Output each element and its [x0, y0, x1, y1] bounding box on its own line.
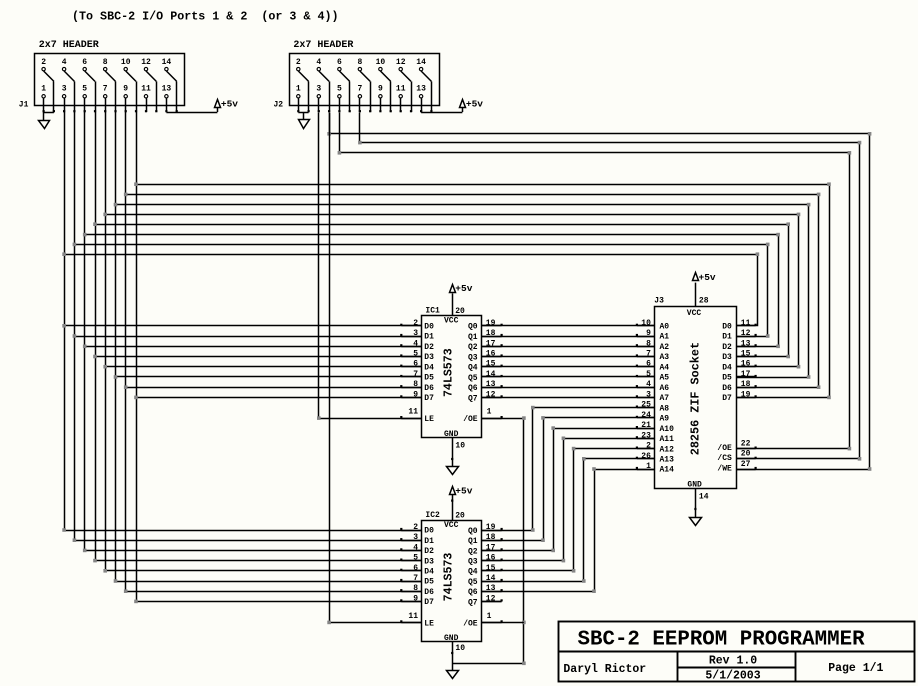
svg-text:3: 3 [316, 84, 321, 93]
IC2 Q0 stub tick [501, 528, 503, 530]
wire J2 pin 4 to IC2 LE [330, 113, 422, 623]
svg-text:J2: J2 [273, 101, 283, 110]
wire J1 pin 7 vertical drop (data bit 4) [105, 112, 107, 571]
svg-text:/OE: /OE [463, 619, 478, 628]
corner /OE chain at GND tie [522, 662, 526, 666]
IC1 input pin 6 D4 [401, 366, 421, 368]
IC1 D0 stub tick [400, 324, 402, 326]
svg-text:D3: D3 [722, 353, 732, 362]
IC2 output pin 14 Q5 [482, 581, 502, 583]
IC1 output pin 18 Q1 [482, 336, 502, 338]
ZIF A11 stub tick [636, 436, 638, 438]
corner IC2 Q2 bottom [551, 549, 555, 553]
ZIF pin 16 D4 [737, 366, 756, 368]
svg-text:4: 4 [413, 543, 418, 552]
svg-text:J3: J3 [654, 297, 664, 306]
svg-text:7: 7 [103, 84, 108, 93]
corner IC2 Q4 bottom [572, 569, 576, 573]
corner data bit 5 at right vertical [807, 203, 811, 207]
svg-text:22: 22 [741, 439, 751, 448]
ZIF A13 stub tick [636, 457, 638, 459]
IC1 output pin 13 Q6 [482, 387, 502, 389]
corner J2 pin 6 to ZIF /WE at ZIF pin [868, 467, 872, 471]
ZIF pin 5 A5 [637, 376, 655, 378]
wire IC2 Q6 to ZIF A14 [482, 470, 655, 592]
svg-text:D5: D5 [722, 374, 732, 383]
IC1 input pin 2 D0 [401, 325, 421, 327]
corner data bit 6 at ZIF D6 [817, 385, 821, 389]
IC2 Q2 stub tick [501, 548, 503, 550]
svg-text:Q1: Q1 [468, 333, 478, 342]
svg-text:10: 10 [455, 644, 465, 653]
junction data bit 5 at IC1 input [114, 375, 118, 379]
wire data bit 4 tap to IC2 D4 [105, 570, 421, 572]
IC2 D6 stub tick [400, 589, 402, 591]
svg-text:9: 9 [413, 594, 418, 603]
wire J2 pin 6 to ZIF /WE [330, 113, 870, 470]
wire IC1 Q4 to ZIF A4 [482, 366, 655, 368]
ZIF D5 stub tick [755, 375, 757, 377]
wire data bit 1 tap to IC2 D1 [74, 540, 421, 542]
corner J2 pin 7 to ZIF /CS start [358, 141, 362, 145]
IC1 input pin 9 D7 [401, 397, 421, 399]
svg-text:18: 18 [741, 380, 751, 389]
svg-text:2: 2 [646, 442, 651, 451]
socket J3 body 28256 ZIF Socket [655, 307, 737, 489]
svg-text:8: 8 [413, 380, 418, 389]
svg-text:5: 5 [413, 350, 418, 359]
wire data bit 5 tap to IC1 D5 [116, 376, 422, 378]
IC1 D3 stub tick [400, 354, 402, 356]
svg-text:21: 21 [641, 421, 651, 430]
IC2 pin 10 GND [452, 642, 454, 670]
ZIF A9 stub tick [636, 416, 638, 418]
wire J1 pin 6 vertical drop (data bit 3) [95, 112, 97, 561]
corner data bit 3 at right vertical [786, 222, 790, 226]
svg-text:A2: A2 [660, 343, 670, 352]
ZIF D0 stub tick [755, 324, 757, 326]
svg-text:Q7: Q7 [468, 394, 478, 403]
svg-text:16: 16 [486, 350, 496, 359]
wire data bit 7 (J1 pin 10) top bus to ZIF D7 [137, 185, 830, 398]
wire IC1 Q6 to ZIF A6 [482, 387, 655, 389]
svg-text:Daryl Rictor: Daryl Rictor [563, 663, 646, 676]
corner J2 pin 7 to ZIF /CS right top [858, 141, 862, 145]
corner data bit 2 at right vertical [776, 233, 780, 237]
wire J2 pins 13-14 to +5v [421, 112, 462, 114]
corner data bit 7 at right vertical [827, 182, 831, 186]
svg-text:20: 20 [455, 307, 465, 316]
ZIF D3 stub tick [755, 354, 757, 356]
ZIF pin 3 A7 [637, 397, 655, 399]
corner data bit 5 at IC2 input [114, 579, 118, 583]
wire J2 pin 5 to ZIF /OE [340, 113, 850, 449]
IC2 input pin 2 D0 [401, 530, 421, 532]
IC1 Q5 stub tick [501, 375, 503, 377]
svg-text:2x7 HEADER: 2x7 HEADER [293, 40, 353, 51]
IC2 Q6 stub tick [501, 589, 503, 591]
ZIF D6 stub tick [755, 385, 757, 387]
svg-text:7: 7 [413, 574, 418, 583]
ground at J1 pins 1-2 [44, 112, 54, 114]
svg-text:5: 5 [646, 370, 651, 379]
svg-text:1: 1 [41, 84, 46, 93]
ZIF A8 stub tick [636, 406, 638, 408]
svg-text:13: 13 [486, 380, 496, 389]
corner data bit 0 at right vertical [756, 252, 760, 256]
wire data bit 0 tap to IC2 D0 [64, 530, 421, 532]
svg-text:/WE: /WE [717, 464, 732, 473]
ZIF stub tick for J2 pin 6 to ZIF /WE [755, 467, 757, 469]
svg-text:A3: A3 [660, 353, 670, 362]
ZIF D4 stub tick [755, 365, 757, 367]
svg-text:17: 17 [486, 543, 496, 552]
svg-text:Q4: Q4 [468, 364, 478, 373]
corner data bit 2 at ZIF D2 [776, 345, 780, 349]
IC1 D2 stub tick [400, 344, 402, 346]
wire J1 pin 3 vertical drop (data bit 0) [64, 112, 66, 530]
ZIF A7 stub tick [636, 395, 638, 397]
latch IC1 body 74LS573 [422, 316, 482, 438]
ZIF D1 stub tick [755, 334, 757, 336]
wire J1 pin 10 vertical drop (data bit 7) [136, 112, 138, 601]
IC1 input pin 7 D5 [401, 376, 421, 378]
wire J2 pin 7 to ZIF /CS [360, 113, 860, 459]
svg-text:4: 4 [413, 339, 418, 348]
svg-text:+5v: +5v [466, 99, 483, 110]
wire IC1 Q2 to ZIF A2 [482, 346, 655, 348]
connector J1 body [35, 54, 185, 106]
svg-text:10: 10 [641, 319, 651, 328]
svg-text:5: 5 [82, 84, 87, 93]
ZIF D7 stub tick [755, 395, 757, 397]
ZIF A3 stub tick [636, 354, 638, 356]
corner J2 pin 3 at IC1 LE [317, 416, 321, 420]
IC2 D2 stub tick [400, 548, 402, 550]
svg-text:D0: D0 [424, 527, 434, 536]
power +5v at J1 [215, 100, 221, 108]
corner data bit 7 at IC2 input [134, 600, 138, 604]
svg-text:17: 17 [486, 339, 496, 348]
junction data bit 0 at top bus [62, 252, 66, 256]
IC1 Q3 stub tick [501, 354, 503, 356]
IC2 D3 stub tick [400, 559, 402, 561]
wire J1 pin 5 vertical drop (data bit 2) [84, 112, 86, 550]
svg-text:/OE: /OE [463, 415, 478, 424]
IC2 LE pin 11 [401, 622, 421, 624]
ZIF pin 13 D2 [737, 346, 756, 348]
ZIF pin 14 GND [695, 489, 697, 518]
svg-text:2x7 HEADER: 2x7 HEADER [39, 40, 99, 51]
IC1 output pin 17 Q2 [482, 346, 502, 348]
wire IC1 /OE to IC2 /OE to GND [453, 419, 524, 664]
junction data bit 3 at top bus [93, 222, 97, 226]
junction data bit 2 at top bus [83, 233, 87, 237]
IC1 D1 stub tick [400, 334, 402, 336]
svg-text:D1: D1 [722, 333, 732, 342]
svg-text:D6: D6 [424, 384, 434, 393]
svg-text:/CS: /CS [717, 454, 732, 463]
svg-text:A14: A14 [660, 466, 675, 475]
svg-text:14: 14 [486, 370, 496, 379]
corner data bit 4 at ZIF D4 [797, 365, 801, 369]
corner data bit 3 at IC2 input [93, 559, 97, 563]
svg-text:1: 1 [487, 408, 492, 417]
junction data bit 7 at top bus [134, 182, 138, 186]
ZIF A5 stub tick [636, 375, 638, 377]
wire data bit 3 tap to IC2 D3 [95, 560, 421, 562]
corner data bit 4 at IC2 input [103, 569, 107, 573]
svg-text:(To SBC-2 I/O Ports 1 & 2 (or: (To SBC-2 I/O Ports 1 & 2 (or 3 & 4)) [72, 10, 339, 24]
corner /OE chain at IC1 [522, 416, 526, 420]
svg-text:27: 27 [741, 460, 751, 469]
corner IC2 Q1 top at A9 [541, 416, 545, 420]
wire data bit 2 (J1 pin 5) top bus to ZIF D2 [85, 235, 779, 347]
svg-text:6: 6 [413, 360, 418, 369]
svg-text:28: 28 [699, 296, 709, 305]
IC2 D5 stub tick [400, 579, 402, 581]
svg-text:12: 12 [486, 594, 496, 603]
ZIF pin 18 D6 [737, 387, 756, 389]
svg-text:GND: GND [444, 430, 459, 439]
junction data bit 2 at IC1 input [83, 345, 87, 349]
svg-text:A11: A11 [660, 435, 675, 444]
corner IC2 Q0 bottom [531, 528, 535, 532]
svg-text:D4: D4 [424, 568, 434, 577]
wire IC1 Q0 to ZIF A0 [482, 325, 655, 327]
corner J2 pin 5 to ZIF /OE at ZIF pin [848, 447, 852, 451]
svg-text:2: 2 [413, 319, 418, 328]
ZIF A14 stub tick [636, 467, 638, 469]
svg-text:LE: LE [424, 619, 434, 628]
ZIF pin 10 A0 [637, 325, 655, 327]
IC2 output pin 16 Q3 [482, 560, 502, 562]
svg-text:D2: D2 [424, 547, 434, 556]
wire data bit 5 (J1 pin 8) top bus to ZIF D5 [116, 205, 809, 378]
svg-text:16: 16 [486, 554, 496, 563]
IC1 output pin 15 Q4 [482, 366, 502, 368]
ZIF pin 9 A1 [637, 336, 655, 338]
corner J2 pin 5 to ZIF /OE start [338, 151, 342, 155]
wire data bit 0 (J1 pin 3) top bus to ZIF D0 [65, 255, 758, 326]
svg-text:D0: D0 [424, 323, 434, 332]
IC1 Q0 stub tick [501, 324, 503, 326]
IC2 Q5 stub tick [501, 579, 503, 581]
svg-text:Q6: Q6 [468, 588, 478, 597]
ground at IC1 [447, 467, 459, 475]
svg-text:74LS573: 74LS573 [442, 348, 455, 397]
ZIF pin 20 /CS [737, 458, 756, 460]
IC2 output pin 15 Q4 [482, 570, 502, 572]
svg-text:4: 4 [62, 58, 67, 67]
svg-text:11: 11 [408, 408, 418, 417]
IC2 input pin 4 D2 [401, 550, 421, 552]
svg-text:A4: A4 [660, 363, 670, 372]
svg-text:15: 15 [741, 350, 751, 359]
corner IC2 Q6 bottom [592, 589, 596, 593]
svg-text:13: 13 [486, 584, 496, 593]
svg-text:SBC-2 EEPROM PROGRAMMER: SBC-2 EEPROM PROGRAMMER [578, 628, 866, 651]
wire IC1 Q5 to ZIF A5 [482, 376, 655, 378]
IC1 Q7 stub tick [501, 395, 503, 397]
svg-text:A8: A8 [660, 404, 670, 413]
svg-text:3: 3 [413, 329, 418, 338]
ZIF A0 stub tick [636, 324, 638, 326]
IC2 output pin 19 Q0 [482, 530, 502, 532]
wire IC2 Q4 to ZIF A12 [482, 449, 655, 571]
wire J2 pin 3 to IC1 LE [319, 113, 422, 419]
IC2 D7 stub tick [400, 599, 402, 601]
svg-text:18: 18 [486, 329, 496, 338]
corner data bit 1 at IC2 input [73, 538, 77, 542]
svg-text:D6: D6 [722, 384, 732, 393]
IC1 input pin 4 D2 [401, 346, 421, 348]
svg-text:2: 2 [41, 58, 46, 67]
corner J2 pin 6 to ZIF /WE right top [868, 132, 872, 136]
IC1 Q4 stub tick [501, 365, 503, 367]
corner J2 pin 5 to ZIF /OE right top [848, 151, 852, 155]
wire IC2 Q5 to ZIF A13 [482, 459, 655, 582]
svg-text:8: 8 [357, 58, 362, 67]
wire data bit 3 (J1 pin 6) top bus to ZIF D3 [96, 225, 789, 357]
svg-text:Q2: Q2 [468, 343, 478, 352]
svg-text:LE: LE [424, 415, 434, 424]
svg-text:Q0: Q0 [468, 323, 478, 332]
svg-text:18: 18 [486, 533, 496, 542]
svg-text:A7: A7 [660, 394, 670, 403]
wire data bit 4 tap to IC1 D4 [105, 366, 421, 368]
svg-text:11: 11 [741, 319, 751, 328]
corner J2 pin 4 at IC2 LE [327, 621, 331, 625]
IC1 Q2 stub tick [501, 344, 503, 346]
ZIF pin 6 A4 [637, 366, 655, 368]
svg-text:1: 1 [646, 462, 651, 471]
svg-text:D6: D6 [424, 588, 434, 597]
IC2 input pin 7 D5 [401, 581, 421, 583]
svg-text:23: 23 [641, 431, 651, 440]
ZIF A12 stub tick [636, 447, 638, 449]
svg-text:9: 9 [413, 390, 418, 399]
svg-text:15: 15 [486, 360, 496, 369]
svg-text:74LS573: 74LS573 [442, 553, 455, 602]
svg-text:A0: A0 [660, 323, 670, 332]
svg-text:A9: A9 [660, 415, 670, 424]
corner data bit 7 at ZIF D7 [827, 396, 831, 400]
junction data bit 1 at top bus [73, 243, 77, 247]
corner IC2 Q1 bottom [541, 538, 545, 542]
svg-text:D4: D4 [424, 363, 434, 372]
IC2 output pin 12 Q7 [482, 601, 502, 603]
svg-text:3: 3 [413, 533, 418, 542]
svg-text:Q0: Q0 [468, 527, 478, 536]
ZIF pin 11 D0 [737, 325, 756, 327]
corner IC2 Q5 bottom [582, 579, 586, 583]
svg-text:VCC: VCC [687, 309, 702, 318]
svg-text:J1: J1 [19, 101, 29, 110]
svg-text:+5v: +5v [221, 99, 238, 110]
svg-text:19: 19 [486, 523, 496, 532]
IC1 Q6 stub tick [501, 385, 503, 387]
wire data bit 6 (J1 pin 9) top bus to ZIF D6 [126, 195, 819, 388]
svg-text:9: 9 [378, 84, 383, 93]
wire J1 pin 8 vertical drop (data bit 5) [115, 112, 117, 581]
wire IC2 /OE to chain [482, 622, 524, 624]
title block frame [559, 622, 915, 682]
title block row divider [559, 651, 915, 653]
svg-text:20: 20 [741, 450, 751, 459]
ZIF pin 23 A11 [637, 438, 655, 440]
ZIF pin 22 /OE [737, 448, 756, 450]
power +5v at J2 [460, 100, 466, 108]
IC1 output pin 14 Q5 [482, 376, 502, 378]
svg-text:Q3: Q3 [468, 558, 478, 567]
svg-text:A5: A5 [660, 374, 670, 383]
IC1 D7 stub tick [400, 395, 402, 397]
svg-text:2: 2 [413, 523, 418, 532]
wire IC1 Q1 to ZIF A1 [482, 336, 655, 338]
corner data bit 2 at IC2 input [83, 549, 87, 553]
IC1 output pin 16 Q3 [482, 356, 502, 358]
svg-text:26: 26 [641, 452, 651, 461]
svg-text:Q6: Q6 [468, 384, 478, 393]
IC2 input pin 6 D4 [401, 570, 421, 572]
IC2 /OE stub tick [501, 620, 503, 622]
corner IC2 Q4 top at A12 [572, 447, 576, 451]
title block column divider 1 [677, 652, 679, 681]
ZIF pin 24 A9 [637, 417, 655, 419]
corner IC2 Q3 bottom [562, 559, 566, 563]
ZIF pin 17 D5 [737, 376, 756, 378]
svg-text:17: 17 [741, 370, 751, 379]
wire IC2 Q1 to ZIF A9 [482, 418, 655, 541]
IC1 D6 stub tick [400, 385, 402, 387]
svg-text:VCC: VCC [444, 521, 459, 530]
ZIF A10 stub tick [636, 426, 638, 428]
svg-text:24: 24 [641, 411, 651, 420]
wire data bit 2 tap to IC1 D2 [85, 346, 422, 348]
IC1 LE stub tick [400, 416, 402, 418]
svg-text:9: 9 [646, 329, 651, 338]
svg-text:6: 6 [337, 58, 342, 67]
IC1 input pin 5 D3 [401, 356, 421, 358]
corner J2 pin 7 to ZIF /CS at ZIF pin [858, 457, 862, 461]
svg-text:5: 5 [413, 554, 418, 563]
IC2 input pin 3 D1 [401, 540, 421, 542]
svg-text:11: 11 [396, 84, 406, 93]
wire IC2 Q0 to ZIF A8 [482, 408, 655, 531]
junction data bit 7 at IC1 input [134, 396, 138, 400]
svg-text:10: 10 [455, 441, 465, 450]
svg-text:28256 ZIF Socket: 28256 ZIF Socket [688, 342, 702, 455]
svg-text:D7: D7 [424, 598, 434, 607]
svg-text:5: 5 [337, 84, 342, 93]
svg-text:D0: D0 [722, 323, 732, 332]
svg-text:11: 11 [141, 84, 151, 93]
svg-text:/OE: /OE [717, 444, 732, 453]
ZIF pin 12 D1 [737, 336, 756, 338]
IC2 output pin 13 Q6 [482, 591, 502, 593]
svg-text:D7: D7 [424, 394, 434, 403]
wire data bit 4 (J1 pin 7) top bus to ZIF D4 [106, 215, 799, 367]
svg-text:2: 2 [296, 58, 301, 67]
svg-text:25: 25 [641, 401, 651, 410]
svg-text:+5v: +5v [699, 272, 716, 283]
svg-text:4: 4 [316, 58, 321, 67]
ZIF stub tick for J2 pin 7 to ZIF /CS [755, 457, 757, 459]
ZIF D2 stub tick [755, 344, 757, 346]
IC2 input pin 9 D7 [401, 601, 421, 603]
junction data bit 6 at IC1 input [124, 385, 128, 389]
